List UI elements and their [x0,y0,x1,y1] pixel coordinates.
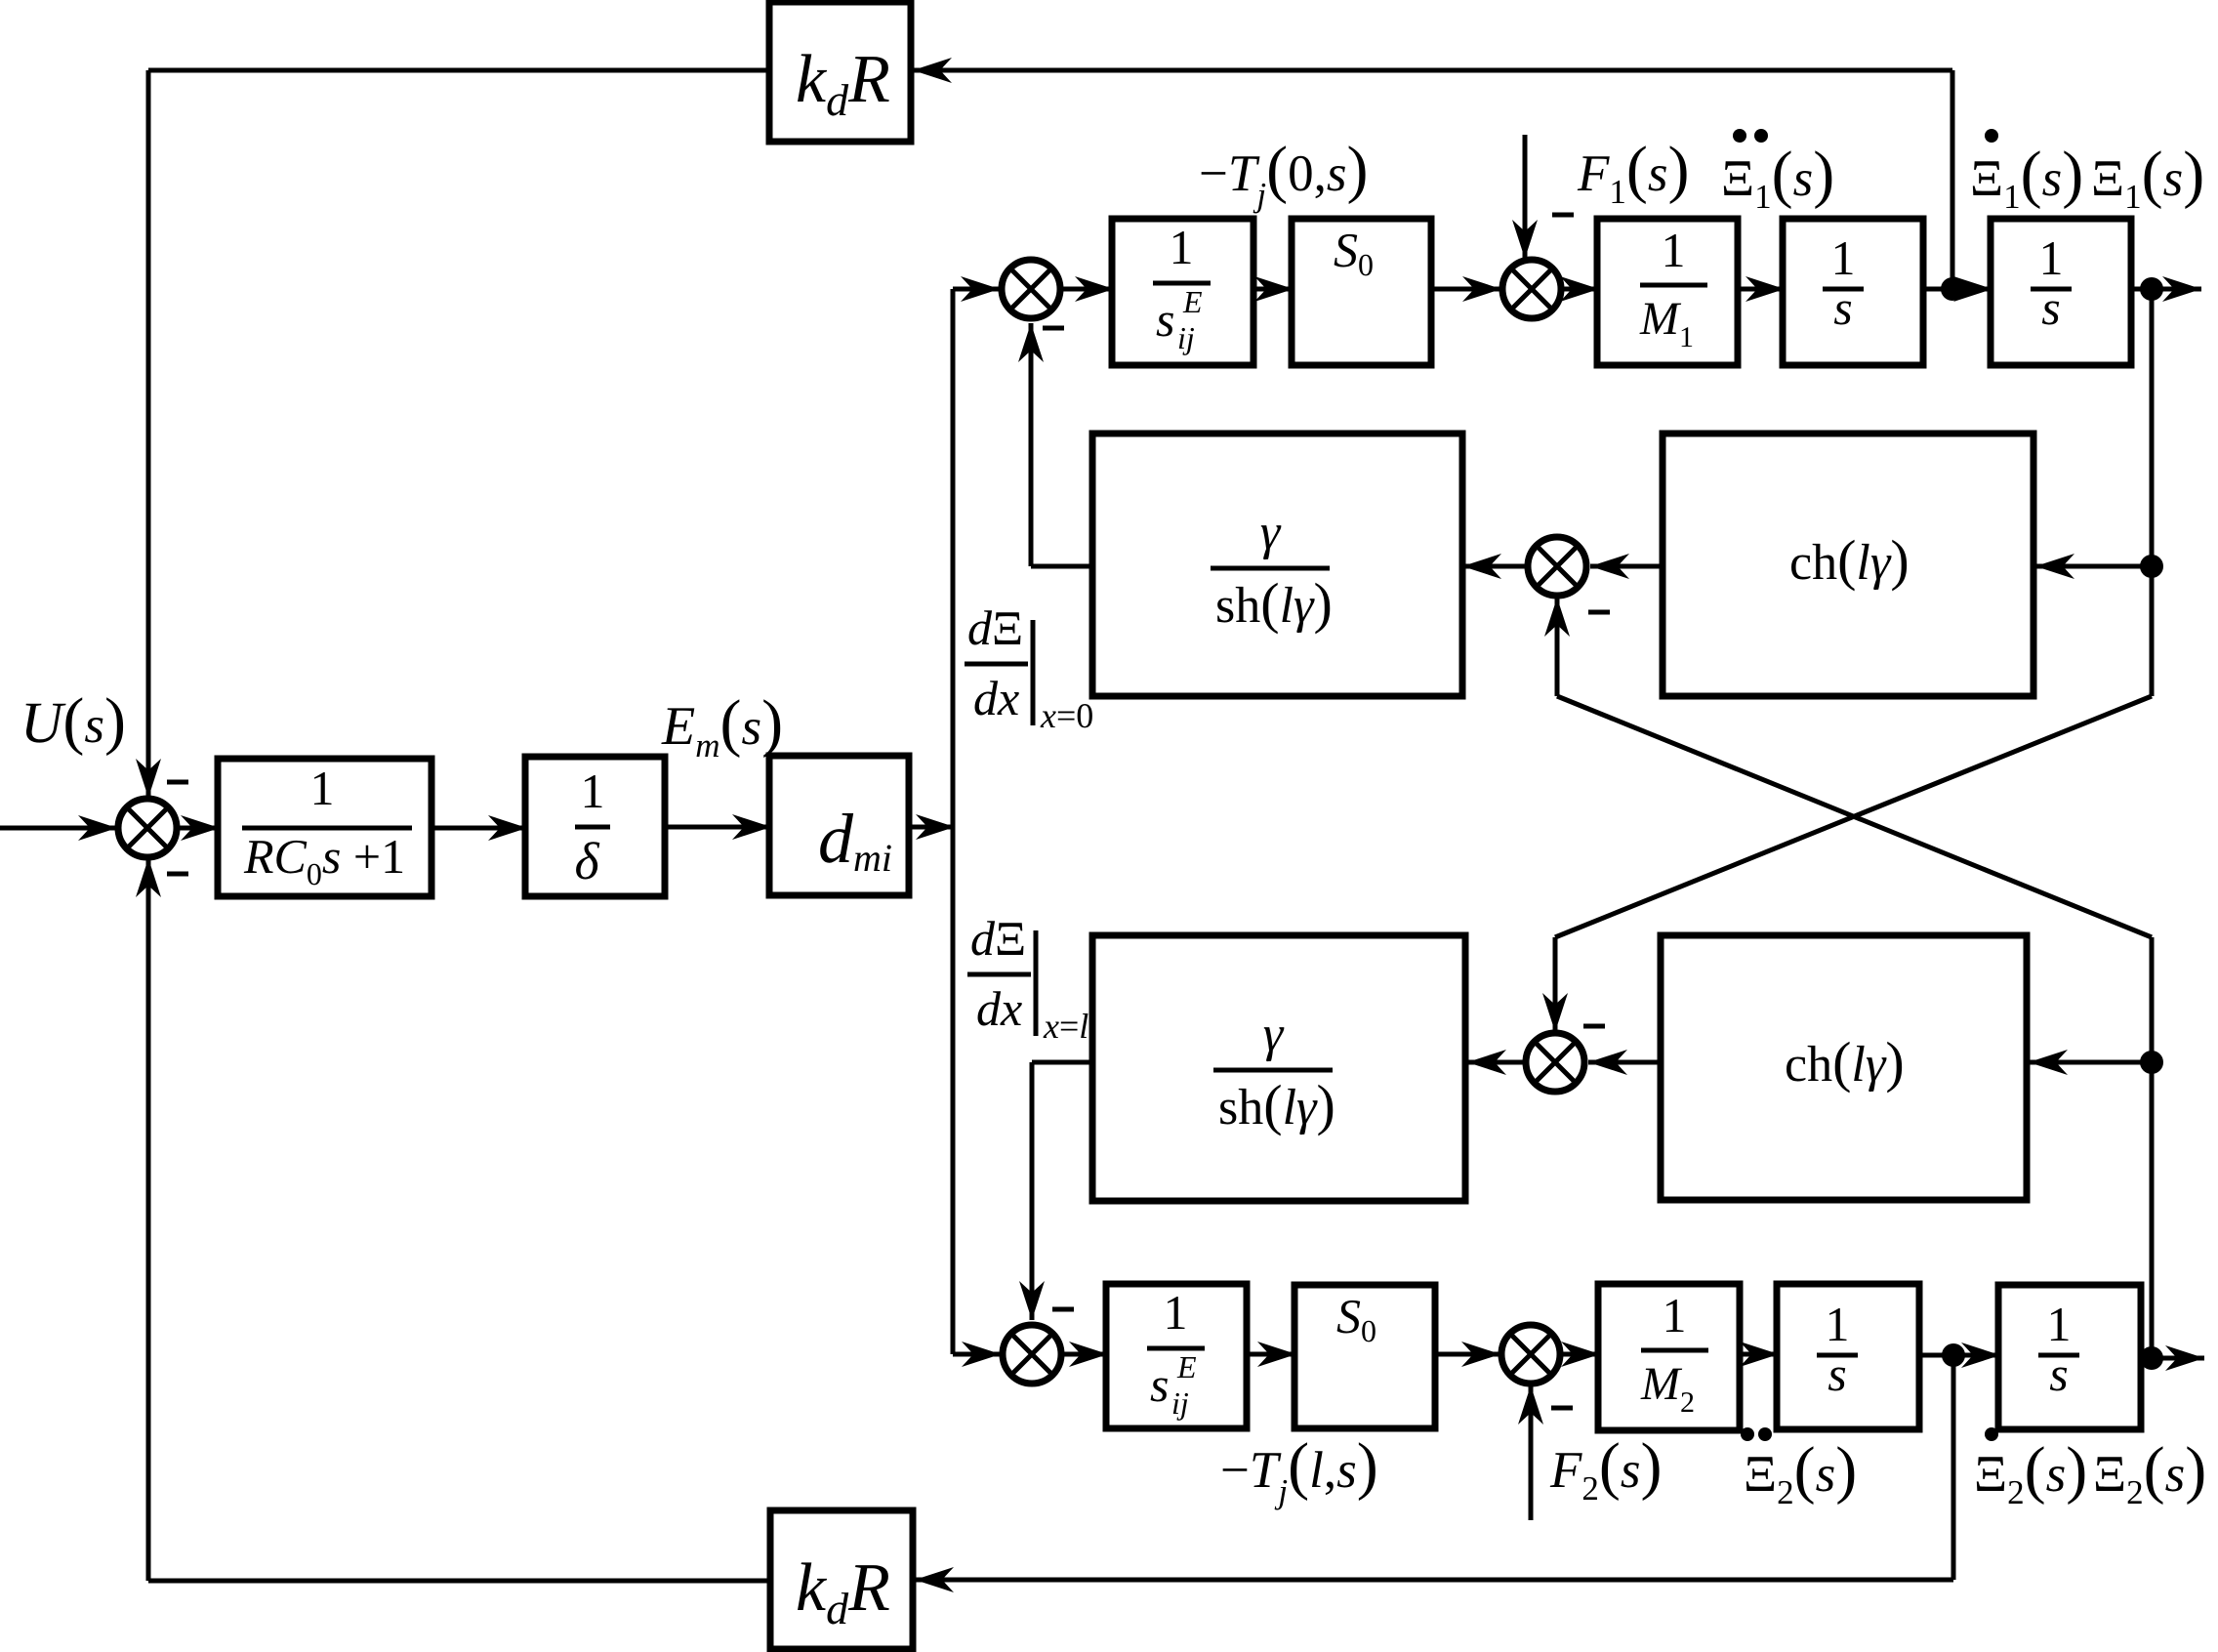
svg-text:1: 1 [1826,1297,1850,1351]
svg-text:dΞ: dΞ [967,600,1023,655]
svg-text:Ξ1(s): Ξ1(s) [1970,139,2083,216]
svg-text:sh(lγ): sh(lγ) [1215,571,1333,635]
svg-text:1: 1 [1663,1288,1687,1342]
svg-text:s: s [1150,1357,1169,1412]
svg-text:1: 1 [1170,220,1194,274]
svg-text:γ: γ [1263,1007,1285,1062]
svg-text:δ: δ [574,832,599,890]
svg-text:ch(lγ): ch(lγ) [1789,528,1910,592]
svg-text:1: 1 [1164,1285,1188,1340]
svg-text:dx: dx [976,981,1022,1036]
svg-text:Ξ1(s): Ξ1(s) [1721,139,1834,216]
svg-text:s: s [1833,280,1852,335]
svg-text:1: 1 [581,764,605,818]
svg-text:Ξ2(s): Ξ2(s) [2093,1434,2206,1511]
svg-text:Em(s): Em(s) [661,687,783,764]
svg-text:U(s): U(s) [21,685,126,757]
svg-text:dx: dx [973,671,1019,725]
svg-text:ij: ij [1177,320,1195,355]
svg-text:F2(s): F2(s) [1549,1430,1662,1507]
svg-text:E: E [1176,1349,1197,1384]
svg-text:1: 1 [2047,1297,2072,1351]
svg-text:F1(s): F1(s) [1577,134,1689,211]
svg-text:1: 1 [1831,230,1856,285]
svg-text:x=0: x=0 [1040,696,1093,735]
svg-text:ch(lγ): ch(lγ) [1785,1030,1905,1094]
svg-text:1: 1 [2039,230,2064,285]
svg-text:s: s [1828,1346,1846,1401]
svg-text:1: 1 [1662,223,1686,277]
svg-text:Ξ2(s): Ξ2(s) [1744,1434,1857,1511]
svg-text:Ξ2(s): Ξ2(s) [1974,1434,2087,1511]
svg-text:s: s [2041,280,2060,335]
svg-text:−Tj(0,s): −Tj(0,s) [1199,134,1368,214]
svg-text:1: 1 [310,761,335,815]
svg-text:E: E [1182,284,1203,319]
svg-text:x=l: x=l [1043,1007,1088,1046]
svg-text:γ: γ [1260,505,1282,560]
svg-text:s: s [2049,1346,2068,1401]
svg-text:Ξ1(s): Ξ1(s) [2091,139,2204,216]
svg-text:ij: ij [1171,1385,1189,1421]
svg-text:s: s [1156,292,1174,347]
svg-text:−Tj(l,s): −Tj(l,s) [1220,1430,1378,1510]
svg-text:dΞ: dΞ [970,911,1026,966]
svg-text:RC0s +1: RC0s +1 [243,829,405,891]
svg-text:sh(lγ): sh(lγ) [1218,1073,1335,1136]
